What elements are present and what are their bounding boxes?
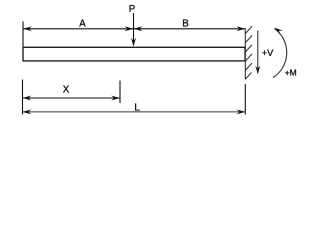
dim L [23,111,246,113]
svg-text:L: L [134,102,140,113]
svg-text:B: B [182,19,188,30]
dim X [23,97,121,99]
dim A [23,28,134,30]
node left extension (above beam) [22,22,24,47]
svg-text:X: X [63,84,70,95]
beam [23,47,245,61]
X right tick [119,81,121,104]
svg-text:A: A [79,19,86,30]
dim B [134,28,246,30]
X/L left extension [22,80,24,115]
wall [245,26,252,79]
svg-text:+V: +V [262,48,274,58]
L right extension [244,84,246,115]
svg-text:+M: +M [285,67,297,77]
force P arrow [133,13,135,46]
shear arrow +V [257,31,259,74]
svg-text:P: P [129,4,135,15]
moment arc +M [273,29,287,78]
